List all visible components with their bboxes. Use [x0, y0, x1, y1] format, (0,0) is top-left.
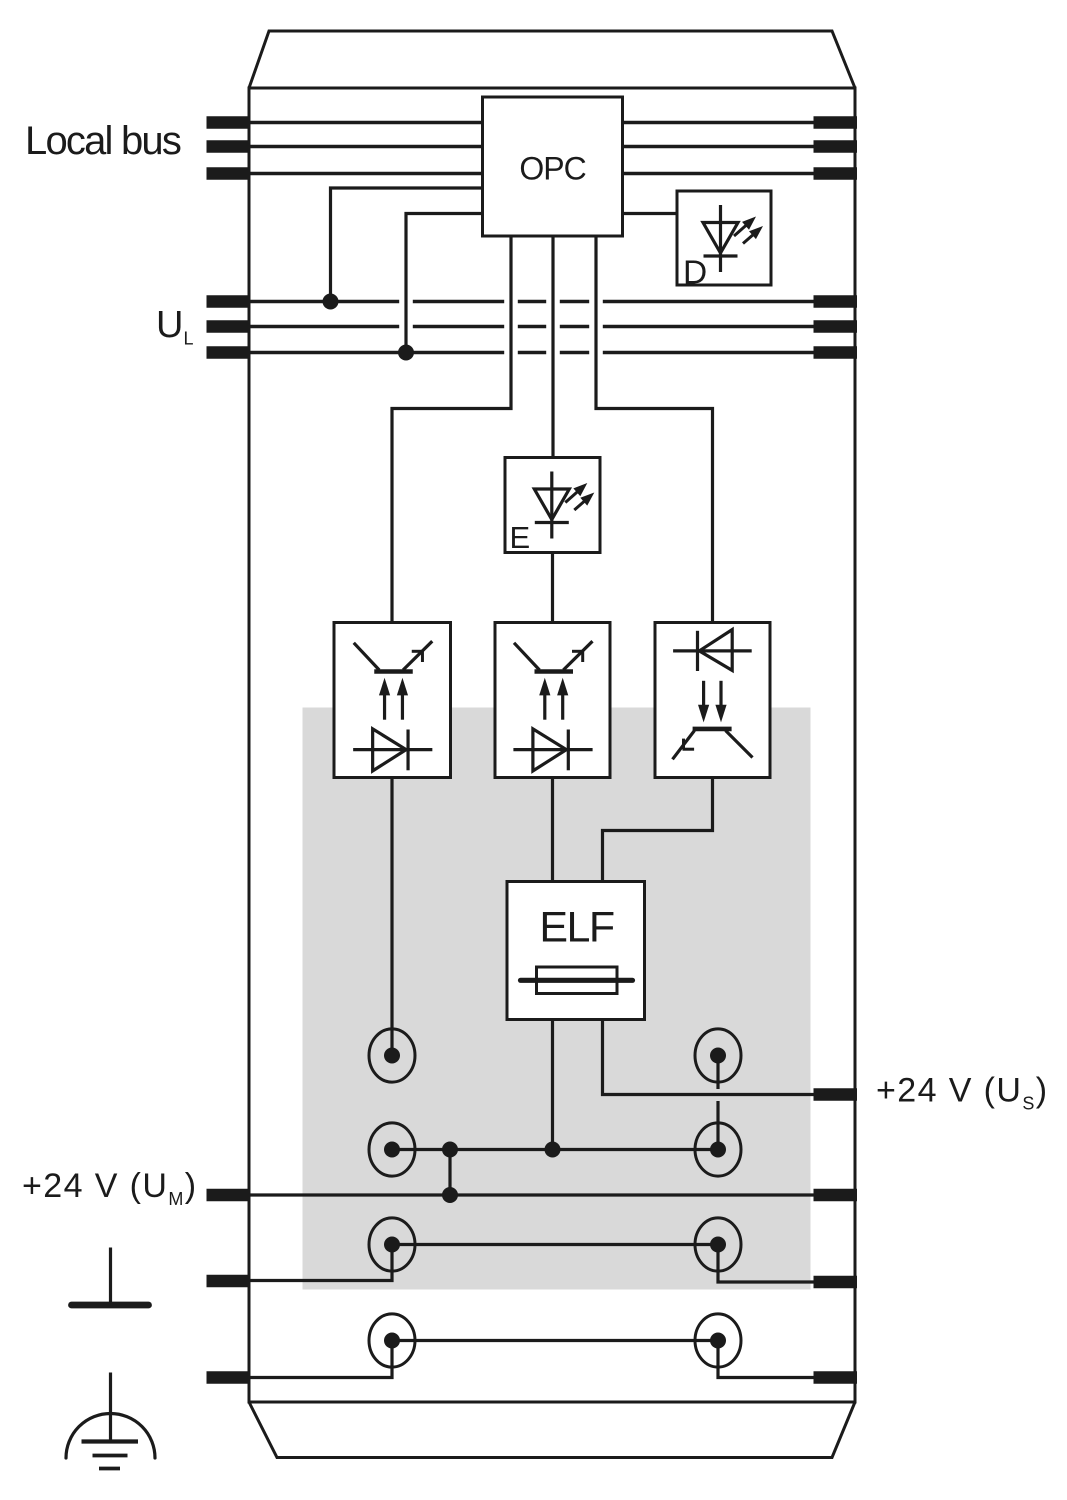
svg-text:E: E: [510, 520, 531, 555]
svg-text:L: L: [184, 329, 194, 349]
svg-text:U: U: [156, 304, 183, 346]
svg-text:D: D: [683, 255, 707, 292]
svg-text:OPC: OPC: [519, 151, 585, 187]
svg-text:Local bus: Local bus: [25, 119, 181, 163]
svg-text:ELF: ELF: [539, 904, 614, 952]
